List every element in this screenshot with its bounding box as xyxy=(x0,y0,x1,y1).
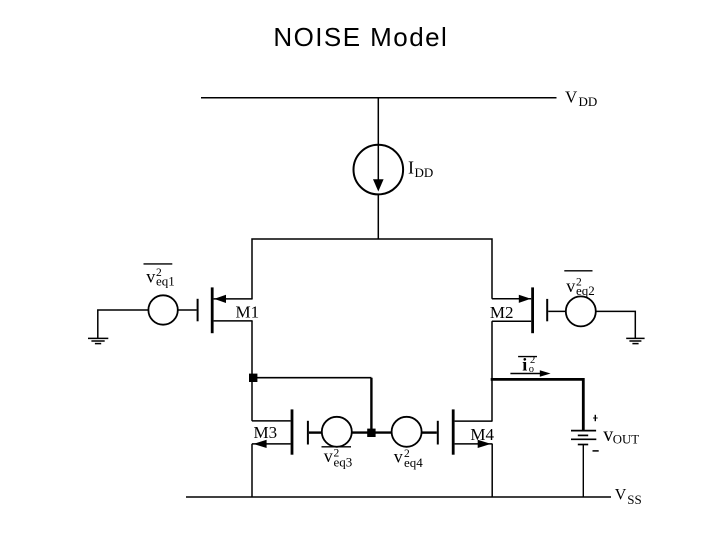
wire M4 source to VSS xyxy=(491,444,493,497)
veq1 label xyxy=(144,264,175,289)
minus sign xyxy=(593,450,599,452)
transistor M4 xyxy=(438,409,493,454)
noise source V2 circle xyxy=(566,296,596,326)
svg-text:v: v xyxy=(566,276,575,296)
noise source V4 circle xyxy=(392,417,422,447)
svg-text:OUT: OUT xyxy=(613,432,639,446)
svg-text:DD: DD xyxy=(415,165,434,180)
svg-text:eq3: eq3 xyxy=(334,455,353,470)
wire battery to VSS xyxy=(582,445,584,498)
node A junction dot xyxy=(249,374,257,382)
wire V4 to M4 gate xyxy=(422,431,437,433)
wire gate node vertical xyxy=(370,378,372,433)
transistor M1 xyxy=(198,287,253,333)
wire VDD to current source xyxy=(377,98,379,145)
wire M3 gate to noise source V3 xyxy=(309,431,322,433)
io noise current arrow xyxy=(510,370,550,377)
thick output wire to battery xyxy=(491,379,584,430)
current source IDD xyxy=(354,145,404,195)
wire M2 gate to noise source V2 xyxy=(548,310,566,312)
svg-text:v: v xyxy=(603,424,613,446)
wire M2 source down through M4 drain xyxy=(491,321,493,421)
svg-text:V: V xyxy=(615,487,627,504)
svg-text:NOISE Model: NOISE Model xyxy=(273,22,448,52)
wire V3 to gate node xyxy=(352,431,392,433)
gate node junction dot xyxy=(367,429,375,437)
left ground xyxy=(88,338,108,343)
svg-text:SS: SS xyxy=(627,492,641,507)
noise source V1 circle xyxy=(148,295,177,324)
wire M1 gate to noise source V1 xyxy=(178,309,197,311)
VSS rail xyxy=(186,496,611,498)
svg-text:DD: DD xyxy=(579,94,598,109)
wire M3 source to VSS xyxy=(251,444,253,497)
IDD label xyxy=(408,158,433,180)
transistor M3 xyxy=(252,409,308,454)
svg-text:eq2: eq2 xyxy=(576,283,595,298)
svg-text:M3: M3 xyxy=(254,423,278,442)
wire V2 to right ground xyxy=(596,311,636,338)
io label xyxy=(518,355,537,376)
svg-text:M4: M4 xyxy=(470,425,494,444)
battery vOUT xyxy=(571,431,596,445)
svg-text:V: V xyxy=(565,87,578,106)
wire current source to drain bus xyxy=(377,194,379,240)
VSS label xyxy=(615,487,642,507)
right ground xyxy=(626,338,644,343)
vOUT label xyxy=(603,424,639,446)
VDD rail xyxy=(201,97,557,99)
svg-text:eq4: eq4 xyxy=(404,455,423,470)
noise source V3 circle xyxy=(322,417,352,447)
wire node A to gate node xyxy=(253,377,372,379)
svg-text:v: v xyxy=(394,446,403,466)
svg-text:M2: M2 xyxy=(490,303,514,322)
VDD label xyxy=(565,87,597,109)
transistor M2 xyxy=(492,287,547,333)
svg-text:o: o xyxy=(529,364,534,375)
veq4 label xyxy=(394,446,423,470)
wire V1 to left ground xyxy=(98,310,149,338)
veq3 label xyxy=(322,446,353,470)
wire M1 source down to node A xyxy=(251,321,253,421)
svg-text:eq1: eq1 xyxy=(156,274,175,289)
svg-text:v: v xyxy=(324,446,333,466)
svg-text:I: I xyxy=(408,158,414,178)
veq2 label xyxy=(564,271,594,298)
drain bus wire (fold) xyxy=(252,239,492,299)
svg-text:M1: M1 xyxy=(236,303,260,322)
svg-text:i: i xyxy=(522,355,527,375)
plus sign xyxy=(593,415,598,421)
svg-text:v: v xyxy=(146,267,155,287)
